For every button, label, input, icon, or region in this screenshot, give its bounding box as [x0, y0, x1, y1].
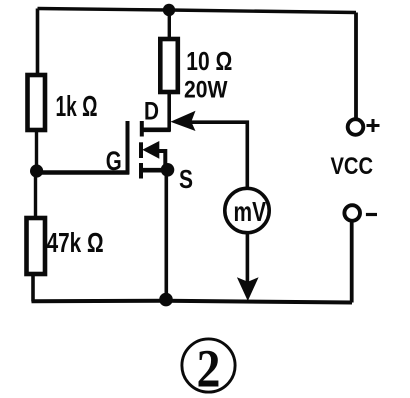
svg-text:47k Ω: 47k Ω: [47, 227, 104, 258]
transistor MOSFET source contact lead: [142, 168, 168, 173]
wire right rail upper segment: [354, 13, 358, 119]
wire 47k to bottom rail: [31, 274, 35, 302]
wire left rail upper segment: [36, 9, 40, 76]
node top supply junction dot: [163, 4, 175, 16]
svg-text:VCC: VCC: [331, 153, 374, 180]
transistor MOSFET channel bar source: [139, 163, 143, 179]
wire meter to drain probe: [189, 122, 247, 188]
wire body-to-source link: [158, 151, 165, 169]
resistor 47k ohm: [27, 218, 46, 274]
svg-text:mV: mV: [234, 196, 267, 227]
probe arrow at bottom rail: [237, 277, 259, 301]
wire 1k to gate node: [35, 130, 38, 172]
label minus sign: [366, 213, 377, 216]
node source junction dot: [161, 163, 175, 177]
wire gate lead: [37, 170, 129, 174]
svg-text:1k Ω: 1k Ω: [56, 91, 98, 123]
transistor MOSFET drain contact lead: [142, 128, 171, 133]
transistor MOSFET body arrow: [142, 141, 159, 159]
wire drain lead vertical: [167, 92, 171, 132]
svg-text:S: S: [179, 164, 193, 194]
wire meter to bottom probe: [246, 233, 250, 282]
probe arrow at drain: [170, 111, 195, 131]
svg-text:20W: 20W: [184, 77, 228, 104]
label plus sign: [367, 119, 380, 132]
transistor MOSFET gate bar: [126, 121, 130, 175]
node gate-divider junction dot: [30, 164, 43, 177]
wire right rail lower segment: [350, 221, 354, 303]
svg-text:G: G: [106, 146, 122, 176]
terminal VCC positive: [348, 119, 364, 135]
wire bottom rail: [32, 301, 353, 303]
svg-text:10 Ω: 10 Ω: [186, 46, 232, 76]
terminal VCC negative: [344, 205, 360, 221]
wire top node to 10 ohm resistor: [168, 10, 171, 39]
svg-text:D: D: [144, 97, 159, 125]
resistor 1k ohm: [28, 75, 46, 130]
meter mV: [225, 188, 269, 232]
svg-text:2: 2: [197, 339, 221, 398]
wire gate node to 47k: [34, 171, 37, 218]
resistor 10 ohm 20W: [160, 39, 178, 92]
wire source to bottom rail: [165, 170, 169, 301]
figure number circle 2: [182, 339, 235, 392]
transistor MOSFET channel bar drain: [140, 121, 144, 137]
transistor MOSFET channel bar body: [139, 142, 143, 158]
wire top rail: [38, 9, 357, 13]
node source-bottom rail junction dot: [159, 293, 173, 307]
